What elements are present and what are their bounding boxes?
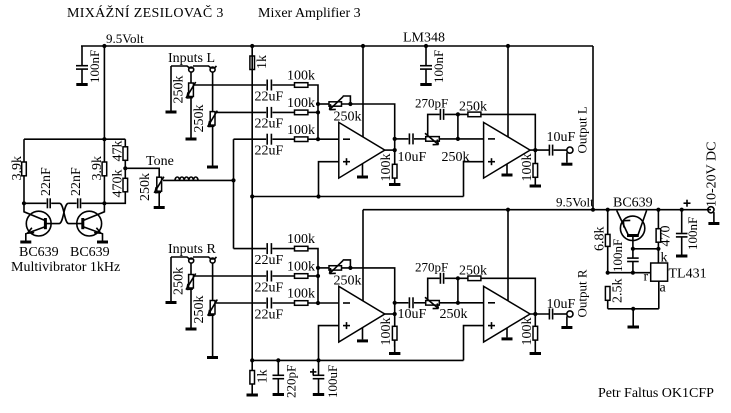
wire row1 mid xyxy=(272,84,294,86)
wire input L jack bar xyxy=(171,66,193,68)
capacitor 22uF row2 xyxy=(255,107,284,132)
svg-text:Inputs L: Inputs L xyxy=(168,51,215,66)
svg-text:100uF: 100uF xyxy=(325,365,340,398)
wire pot to op-amp2 minus xyxy=(439,138,483,140)
capacitor 100nF reference xyxy=(610,239,639,273)
wire pot L1 to ground xyxy=(190,97,192,138)
wire op-amp3 output xyxy=(385,313,395,315)
node op-amp2 output xyxy=(533,148,537,152)
svg-text:22uF: 22uF xyxy=(255,144,284,159)
wire bias vertical xyxy=(251,46,253,371)
ground pot L1 xyxy=(186,138,197,141)
node row2 junction xyxy=(316,110,320,114)
svg-text:100k: 100k xyxy=(287,123,315,138)
capacitor 22nF Q1 xyxy=(24,167,54,208)
node reference line left xyxy=(606,271,610,275)
ground op-amp3 V- xyxy=(357,339,368,342)
node trimmer1 tap xyxy=(348,102,352,106)
ground 100uF xyxy=(313,393,324,396)
svg-text:Output L: Output L xyxy=(575,106,590,153)
transistor Q2 BC639 xyxy=(77,203,105,240)
svg-text:100nF: 100nF xyxy=(87,50,102,83)
capacitor 100nF input xyxy=(676,210,700,255)
wire tone to row3 xyxy=(233,139,235,180)
wire jack shield drop R xyxy=(170,257,172,301)
connector input L jack 2 xyxy=(210,67,215,72)
wire op-amp2 plus input xyxy=(464,162,484,197)
svg-text:6.8k: 6.8k xyxy=(593,227,608,252)
wire Q1 collector branch xyxy=(23,139,25,162)
svg-text:Output R: Output R xyxy=(575,269,590,317)
svg-text:47k: 47k xyxy=(111,141,126,162)
svg-text:Inputs R: Inputs R xyxy=(168,242,217,257)
trimmer 250k feedback L xyxy=(318,96,395,183)
ground 220pF xyxy=(273,393,284,396)
resistor 250k feedback2 R xyxy=(459,264,487,281)
svg-text:MIXÁŽNÍ ZESILOVAČ 3: MIXÁŽNÍ ZESILOVAČ 3 xyxy=(67,4,224,21)
svg-text:10-20V DC: 10-20V DC xyxy=(705,142,720,207)
svg-text:3.9k: 3.9k xyxy=(90,156,105,181)
potentiometer 250k input L2 xyxy=(192,72,217,132)
wire top 9.5V rail xyxy=(81,45,593,47)
label plus supply xyxy=(684,200,691,207)
node mid rail at drop xyxy=(591,208,595,212)
wire tone wiper with coil squiggle xyxy=(163,177,234,180)
ground op-amp4 load xyxy=(530,352,541,355)
wire Q3 base drop xyxy=(632,236,634,258)
node 1k bias tap xyxy=(250,44,254,48)
ground 100nF input xyxy=(676,255,687,258)
node reference at cap xyxy=(631,271,635,275)
wire row2 to node xyxy=(308,111,318,113)
node op-amp3 output xyxy=(393,312,397,316)
potentiometer 250k input L1 xyxy=(172,72,196,103)
potentiometer 250k volume R xyxy=(414,297,468,322)
wire feedback node drop R xyxy=(457,278,459,303)
resistor 470k xyxy=(104,168,127,203)
wire row3 mid xyxy=(272,138,294,140)
wire rail right drop xyxy=(592,46,594,210)
ground Q2 emitter xyxy=(97,241,108,244)
node bias bottom at 1k xyxy=(250,358,254,362)
node 6.8k top xyxy=(606,208,610,212)
capacitor 22uF row4 xyxy=(255,243,284,268)
ground regulator xyxy=(628,326,640,329)
wire tone to row4 xyxy=(233,180,235,248)
ground jack shield R xyxy=(166,301,177,304)
svg-text:100nF: 100nF xyxy=(610,239,625,272)
wire feedback node drop L xyxy=(457,114,459,138)
svg-text:250k: 250k xyxy=(459,100,487,115)
node multivibrator top xyxy=(102,137,106,141)
capacitor 22nF Q2 xyxy=(68,167,104,208)
node trimmer1 left xyxy=(316,102,320,106)
svg-text:250k: 250k xyxy=(172,76,187,104)
node trimmer2 left xyxy=(316,266,320,270)
ground op-amp4 V- xyxy=(502,337,513,340)
ground op-amp2 load xyxy=(530,185,541,188)
resistor 47k xyxy=(111,139,128,168)
resistor 100k row1 xyxy=(287,69,315,88)
wire row3 L from tone xyxy=(234,138,267,140)
resistor 1k top xyxy=(250,55,270,70)
resistor 3.9k Q1 collector xyxy=(22,162,27,176)
wire 9.5V mid rail xyxy=(363,209,711,211)
node op-amp2 V+ tap xyxy=(506,44,510,48)
ground Q1 emitter xyxy=(20,241,31,244)
ground jack shield L xyxy=(166,111,177,114)
svg-text:a: a xyxy=(660,281,667,296)
svg-text:22uF: 22uF xyxy=(255,308,284,323)
resistor 100k op-amp4 load xyxy=(520,314,538,352)
node op-amp4 output xyxy=(533,312,537,316)
svg-text:22uF: 22uF xyxy=(255,253,284,268)
wire op-amp2 output xyxy=(530,149,549,151)
svg-text:9.5Volt: 9.5Volt xyxy=(106,31,144,46)
wire op-amp2 V- tick xyxy=(506,164,508,174)
node multivibrator supply tap xyxy=(102,44,106,48)
ground 1k lower xyxy=(247,394,258,397)
wire row4 R xyxy=(234,248,267,250)
svg-text:22uF: 22uF xyxy=(255,281,284,296)
svg-text:470k: 470k xyxy=(111,170,126,198)
connector input R jack 1 xyxy=(189,258,194,263)
capacitor 22uF row6 xyxy=(255,298,284,323)
resistor 100k row5 xyxy=(287,260,315,279)
ground Output L xyxy=(561,163,572,166)
node minus wire L xyxy=(456,137,460,141)
svg-text:BC639: BC639 xyxy=(70,245,110,260)
svg-text:220pF: 220pF xyxy=(284,365,299,398)
connector Output R xyxy=(567,269,590,326)
node op-amp3 10uF tap xyxy=(393,301,397,305)
wire bias rail bottom xyxy=(252,359,463,361)
wire 3.9k1 lower lead xyxy=(23,176,25,204)
wire op-amp2 V+ xyxy=(507,46,509,137)
ground pot R1 xyxy=(186,328,197,331)
node feedback2 L xyxy=(456,112,460,116)
svg-text:22nF: 22nF xyxy=(39,167,54,196)
svg-text:Tone: Tone xyxy=(146,154,174,169)
capacitor 100nF decoupling left xyxy=(76,46,102,83)
node feedback2 R xyxy=(456,276,460,280)
node bias at 1k line xyxy=(250,194,254,198)
ground op-amp2 V- xyxy=(502,174,513,177)
wire op-amp4 plus input xyxy=(464,326,484,361)
resistor 6.8k xyxy=(593,210,611,273)
node bias bottom at 100uF xyxy=(316,358,320,362)
node op-amp4 V+ tap xyxy=(506,208,510,212)
ground for 100nF left xyxy=(76,83,87,86)
svg-text:250k: 250k xyxy=(192,296,207,324)
svg-text:250k: 250k xyxy=(172,267,187,295)
node row3 junction xyxy=(316,137,320,141)
svg-text:10uF: 10uF xyxy=(547,130,576,145)
svg-text:100k: 100k xyxy=(520,318,535,346)
wire row1 to node xyxy=(308,85,318,139)
svg-text:10uF: 10uF xyxy=(398,307,427,322)
resistor 100k row2 xyxy=(287,96,315,115)
wire divider to tone pot xyxy=(125,168,159,177)
svg-text:10uF: 10uF xyxy=(398,150,427,165)
svg-text:2.5k: 2.5k xyxy=(611,279,626,304)
svg-text:BC639: BC639 xyxy=(613,196,653,211)
trimmer 250k feedback R xyxy=(318,260,395,347)
wire multivibrator top xyxy=(24,138,125,140)
node bias at op-amp1 plus xyxy=(316,194,320,198)
svg-text:250k: 250k xyxy=(459,264,487,279)
wire feedback2 to output L xyxy=(481,114,535,150)
op-amp U1B xyxy=(484,122,530,178)
svg-text:250k: 250k xyxy=(138,173,153,201)
wire 270pF branch riser R xyxy=(428,278,440,300)
node Q1 collector xyxy=(22,201,26,205)
svg-text:LM348: LM348 xyxy=(403,31,445,46)
node minus wire R xyxy=(456,301,460,305)
capacitor 22uF row3 xyxy=(255,134,284,159)
svg-text:100k: 100k xyxy=(287,260,315,275)
node row5 junction xyxy=(316,274,320,278)
svg-text:250k: 250k xyxy=(334,274,362,289)
node tone tee xyxy=(231,178,235,182)
capacitor 22uF row1 xyxy=(255,80,284,105)
svg-text:10uF: 10uF xyxy=(547,297,576,312)
wire feedback2 to output R xyxy=(481,278,535,314)
ground op-amp1 load xyxy=(389,183,400,186)
svg-text:250k: 250k xyxy=(334,110,362,125)
node LM348 decoupling tap xyxy=(424,44,428,48)
svg-text:BC639: BC639 xyxy=(19,245,59,260)
op-amp U2A xyxy=(339,286,385,342)
resistor 1k bias lower xyxy=(250,370,271,394)
potentiometer 250k input R2 xyxy=(192,263,217,323)
connector input R jack 2 xyxy=(210,258,215,263)
wire lower return xyxy=(608,308,659,310)
wire row4 mid xyxy=(272,248,294,250)
node Q2 collector xyxy=(102,201,106,205)
wire 270pF branch riser L xyxy=(428,114,440,136)
svg-text:270pF: 270pF xyxy=(415,96,448,111)
wire base to 470 xyxy=(633,248,659,250)
capacitor 10uF interstage L xyxy=(395,133,427,165)
wire op-amp1 V+ xyxy=(362,46,364,137)
ground for 100nF LM348 xyxy=(420,83,431,86)
wire op-amp4 V- tick xyxy=(506,328,508,338)
connector 10-20V DC xyxy=(705,142,720,222)
wire row2 L xyxy=(216,111,266,113)
svg-text:250k: 250k xyxy=(440,307,468,322)
resistor 250k feedback2 L xyxy=(459,100,487,117)
svg-text:Petr Faltus OK1CFP: Petr Faltus OK1CFP xyxy=(598,386,714,401)
potentiometer 250k input R1 xyxy=(172,263,196,295)
svg-text:22uF: 22uF xyxy=(255,90,284,105)
wire 3.9k2 leads xyxy=(103,139,105,162)
wire row6 mid xyxy=(272,302,294,304)
svg-text:250k: 250k xyxy=(192,105,207,133)
connector input L jack 1 xyxy=(189,67,194,72)
wire op-amp1 V- tick xyxy=(362,164,364,176)
svg-text:250k: 250k xyxy=(442,150,470,165)
node tone divider xyxy=(123,166,127,170)
svg-text:470: 470 xyxy=(659,226,674,247)
ground op-amp3 load xyxy=(389,352,400,355)
node bias bottom at 220pF xyxy=(276,358,280,362)
node row6 junction xyxy=(316,301,320,305)
ground pot R2 xyxy=(207,356,218,359)
svg-text:100nF: 100nF xyxy=(685,217,700,250)
capacitor 100nF decoupling LM348 xyxy=(420,46,446,83)
resistor 100k op-amp2 load xyxy=(520,150,538,184)
capacitor 270pF L xyxy=(415,96,448,120)
capacitor 220pF bias xyxy=(273,360,299,398)
svg-text:r: r xyxy=(644,270,649,285)
wire row5 R xyxy=(194,275,266,277)
resistor 100k row3 xyxy=(287,123,315,142)
transistor Q1 BC639 xyxy=(24,203,51,240)
capacitor 100uF bias xyxy=(310,360,340,398)
wire return ground stem xyxy=(632,309,634,326)
svg-text:100k: 100k xyxy=(287,69,315,84)
wire input R jack bar xyxy=(171,257,193,259)
svg-text:TL431: TL431 xyxy=(669,267,707,282)
resistor 100k row6 xyxy=(287,287,315,306)
wire supply to multivibrator xyxy=(103,46,105,139)
wire bias rail mid xyxy=(252,196,463,198)
svg-text:270pF: 270pF xyxy=(415,260,448,275)
wire pot L2 to ground xyxy=(212,125,214,165)
wire row6 to op-amp U2A minus xyxy=(308,302,339,304)
wire pot to op-amp4 minus xyxy=(439,302,483,304)
ground supply connector xyxy=(708,222,719,225)
wire row3 to op-amp U1A minus xyxy=(308,138,339,140)
wire jack shield drop L xyxy=(170,66,172,111)
svg-text:9.5Volt: 9.5Volt xyxy=(556,195,594,210)
svg-text:100k: 100k xyxy=(287,232,315,247)
wire row1 L xyxy=(194,84,266,86)
svg-text:22nF: 22nF xyxy=(69,167,84,196)
wire tone pot ground lead xyxy=(158,191,160,206)
wire reference line xyxy=(608,272,651,274)
svg-text:100k: 100k xyxy=(287,96,315,111)
node Q3 base xyxy=(631,247,635,251)
node op-amp1 V+ tap xyxy=(361,44,365,48)
node 470 top xyxy=(656,208,660,212)
svg-text:100k: 100k xyxy=(379,154,394,182)
wire op-amp3 V- tick xyxy=(362,328,364,340)
wire op-amp4 V+ xyxy=(507,210,509,301)
svg-text:Mixer Amplifier 3: Mixer Amplifier 3 xyxy=(258,6,361,21)
ground op-amp1 V- xyxy=(357,176,368,179)
wire op-amp1 output xyxy=(385,149,395,151)
svg-text:1k: 1k xyxy=(255,55,270,69)
node trimmer2 tap xyxy=(348,266,352,270)
connector Output L xyxy=(567,106,590,163)
svg-text:22uF: 22uF xyxy=(255,117,284,132)
potentiometer 250k volume L xyxy=(414,133,470,165)
ground pot L2 xyxy=(207,166,218,169)
wire 270pF to node R xyxy=(445,277,468,279)
node 100nF input top xyxy=(680,208,684,212)
capacitor 270pF R xyxy=(415,260,448,284)
svg-text:Multivibrator 1kHz: Multivibrator 1kHz xyxy=(11,260,120,275)
wire row6 R xyxy=(216,302,266,304)
wire op-amp3 plus input xyxy=(319,326,339,361)
resistor 470 xyxy=(656,210,673,249)
resistor 100k op-amp3 load xyxy=(379,318,397,353)
ground tone pot xyxy=(154,206,165,209)
svg-text:k: k xyxy=(661,251,668,266)
ground Output R xyxy=(561,326,572,329)
wire row5 to node xyxy=(308,275,318,277)
wire cross coupling curve B xyxy=(47,203,69,223)
wire pot R1 to ground xyxy=(190,288,192,328)
svg-text:1k: 1k xyxy=(256,370,271,384)
resistor 100k op-amp1 load xyxy=(379,154,397,182)
capacitor 10uF interstage R xyxy=(395,297,427,322)
wire op-amp3 V+ xyxy=(362,210,364,301)
wire op-amp1 plus input xyxy=(319,162,339,197)
op-amp U1A xyxy=(339,122,385,178)
wire row5 mid xyxy=(272,275,294,277)
svg-text:100k: 100k xyxy=(287,287,315,302)
svg-text:100nF: 100nF xyxy=(431,50,446,83)
wire op-amp3 output coupling xyxy=(530,313,549,315)
wire cross coupling curve A xyxy=(51,203,83,223)
node op-amp1 output xyxy=(393,148,397,152)
node op-amp1 10uF tap xyxy=(393,137,397,141)
svg-text:100k: 100k xyxy=(379,318,394,346)
capacitor 22uF row5 xyxy=(255,271,284,296)
IC TL431 xyxy=(644,249,707,309)
potentiometer 250k tone xyxy=(138,173,164,201)
resistor 2.5k xyxy=(605,279,625,309)
transistor Q3 BC639 regulator xyxy=(617,211,647,241)
wire row4 to node xyxy=(308,249,318,303)
node 470 bottom xyxy=(656,247,660,251)
node return ground tap xyxy=(631,307,635,311)
capacitor 10uF output R xyxy=(547,297,576,320)
capacitor 10uF output L xyxy=(547,130,576,156)
wire 270pF to node L xyxy=(445,113,468,115)
svg-text:100k: 100k xyxy=(520,154,535,182)
wire row2 mid xyxy=(272,111,294,113)
op-amp U2B xyxy=(484,286,530,342)
resistor 100k row4 xyxy=(287,232,315,251)
resistor 3.9k Q2 collector xyxy=(90,156,107,181)
wire pot R2 to ground xyxy=(212,314,214,356)
